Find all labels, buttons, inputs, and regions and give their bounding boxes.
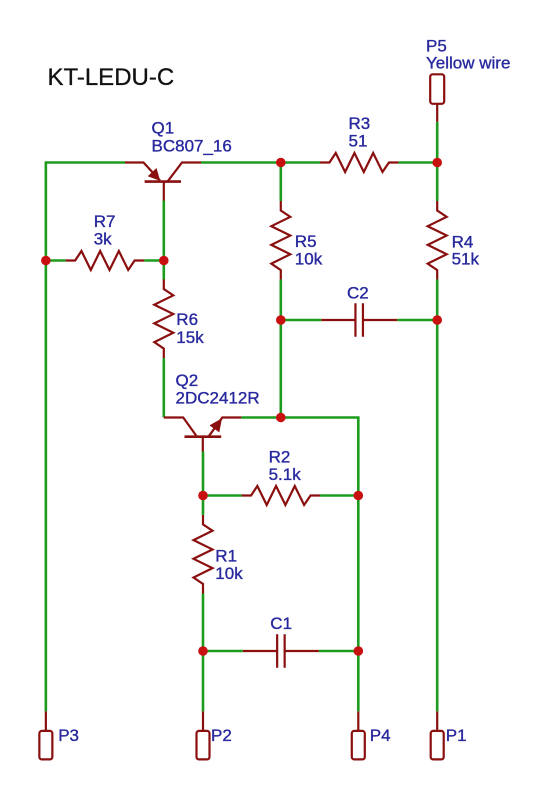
svg-text:10k: 10k	[215, 564, 243, 583]
wire C2 left	[281, 319, 321, 322]
resistor R7	[66, 251, 144, 270]
svg-text:3k: 3k	[94, 230, 112, 249]
transistor Q2 2DC2412R	[164, 371, 260, 452]
wire C1 left	[203, 650, 243, 653]
resistor R4	[428, 201, 447, 279]
wire node B down to R4	[436, 163, 439, 202]
junction node B (R3/P5/R4)	[432, 158, 442, 168]
svg-text:R5: R5	[295, 232, 317, 251]
svg-text:KT-LEDU-C: KT-LEDU-C	[48, 64, 175, 91]
junction Q2 emitter row	[276, 413, 286, 423]
wire R2 left	[203, 494, 242, 497]
svg-text:2DC2412R: 2DC2412R	[176, 388, 260, 407]
junction C1 left	[198, 646, 208, 656]
resistor R5	[271, 201, 290, 279]
wire node A down to R5	[279, 163, 282, 202]
junction C2 right	[432, 315, 442, 325]
svg-text:Q2: Q2	[176, 371, 199, 390]
junction R2 left	[198, 491, 208, 501]
svg-text:P2: P2	[211, 726, 232, 745]
junction C2 left	[276, 315, 286, 325]
pin P2	[197, 711, 232, 759]
pin P4	[352, 711, 391, 759]
svg-text:BC807_16: BC807_16	[152, 136, 232, 155]
wire left rail from Q1 emitter to P3	[46, 163, 125, 712]
wire P5 to node B	[436, 122, 439, 163]
junction C1 right	[354, 646, 364, 656]
svg-text:5.1k: 5.1k	[269, 465, 302, 484]
svg-text:51: 51	[349, 132, 368, 151]
svg-text:R2: R2	[269, 448, 291, 467]
svg-text:Q1: Q1	[152, 119, 175, 138]
transistor Q1 BC807_16	[125, 119, 232, 201]
svg-text:R6: R6	[176, 310, 198, 329]
pin P5	[426, 36, 510, 121]
svg-text:51k: 51k	[452, 249, 480, 268]
resistor R1	[194, 515, 213, 594]
junction R7 left	[41, 256, 51, 266]
wire C2 right	[397, 319, 437, 322]
wire R5 bottom through C2 left node down to Q2 emitter row	[279, 280, 282, 418]
resistor R3	[320, 153, 399, 172]
svg-text:C2: C2	[347, 283, 369, 302]
wire R3 right to node B	[398, 161, 437, 164]
svg-text:Yellow wire: Yellow wire	[426, 54, 510, 73]
wire Q1 collector to R3 left	[201, 161, 320, 164]
wire Q2 base down to R2 node	[202, 452, 205, 496]
pin P1	[431, 711, 467, 759]
wire R4 bottom to C2 right node and P1	[436, 280, 439, 712]
wire C1 right	[319, 650, 358, 653]
wire R6 bottom down to Q2 collector corner	[163, 358, 166, 417]
svg-text:P3: P3	[58, 726, 79, 745]
wire Q2 emitter to right rail corner	[241, 418, 358, 712]
svg-text:15k: 15k	[176, 328, 204, 347]
capacitor C1	[243, 614, 319, 668]
wire R7 right to Q1 base rail	[144, 259, 164, 262]
resistor R2	[242, 486, 320, 505]
svg-text:R3: R3	[349, 114, 371, 133]
svg-text:P4: P4	[370, 726, 391, 745]
svg-text:R1: R1	[215, 546, 237, 565]
svg-text:10k: 10k	[295, 249, 323, 268]
svg-text:R7: R7	[94, 212, 116, 231]
wire node to R6 top	[163, 261, 166, 280]
wire R2 node down to R1	[202, 496, 205, 515]
svg-text:C1: C1	[270, 614, 292, 633]
junction node A (R3/Q1/R5)	[276, 158, 286, 168]
capacitor C2	[321, 283, 397, 336]
junction R2 right	[354, 491, 364, 501]
wire R1 bottom to C1 node and P2	[202, 593, 205, 711]
wire R2 right	[320, 494, 358, 497]
resistor R6	[154, 280, 173, 359]
svg-text:P1: P1	[446, 726, 467, 745]
wire R7 left	[46, 259, 66, 262]
pin P3	[39, 711, 79, 759]
junction R7 right / Q1 base	[159, 256, 169, 266]
wire Q1 base down to R7/R6 node	[163, 201, 166, 261]
